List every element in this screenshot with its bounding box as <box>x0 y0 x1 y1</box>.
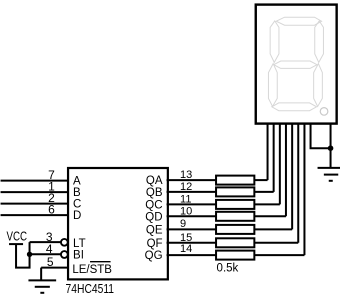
svg-text:QE: QE <box>146 225 163 237</box>
display pin d <box>285 123 287 216</box>
ground left <box>28 280 56 292</box>
segment g <box>274 61 317 68</box>
svg-text:QD: QD <box>145 212 162 224</box>
wire R2 to display pin b <box>254 191 273 193</box>
ground right <box>318 168 340 181</box>
overline STB <box>90 261 111 263</box>
display pin a <box>267 123 269 180</box>
svg-text:12: 12 <box>180 181 192 193</box>
svg-text:13: 13 <box>180 169 192 181</box>
junction dot BI <box>27 252 32 257</box>
display pin c <box>279 123 281 204</box>
display common pin right <box>330 123 332 167</box>
svg-text:QG: QG <box>145 250 163 262</box>
svg-text:4: 4 <box>46 242 53 256</box>
wire input D <box>1 214 68 216</box>
wire R6 to display pin f <box>254 242 298 244</box>
wire R3 to display pin c <box>254 203 279 205</box>
svg-text:LE/STB: LE/STB <box>72 264 112 276</box>
svg-text:0.5k: 0.5k <box>217 263 239 275</box>
7-segment display DIS1 body <box>256 5 337 124</box>
segment c <box>314 64 323 107</box>
display pin f <box>297 123 299 243</box>
wire LT <box>30 241 62 243</box>
IC U1 74HC4511 body <box>68 168 168 279</box>
resistor R7 <box>216 251 254 260</box>
display common pin jog <box>311 123 331 148</box>
display pin g <box>303 123 305 255</box>
wire to ground left <box>40 268 42 281</box>
wire R4 to display pin d <box>254 215 286 217</box>
display pin b <box>273 123 275 192</box>
svg-text:B: B <box>73 187 81 199</box>
resistor R1 <box>216 176 254 185</box>
inversion bubble BI <box>61 251 68 258</box>
wire QF <box>167 242 217 244</box>
resistor R3 <box>216 200 254 209</box>
segment e <box>268 64 277 107</box>
segment d <box>272 103 317 111</box>
wire R7 to display pin g <box>254 254 304 256</box>
svg-text:9: 9 <box>180 218 186 230</box>
wire R1 to display pin a <box>254 179 267 181</box>
wire R5 to display pin e <box>254 228 292 230</box>
wire input A <box>1 180 68 182</box>
wire QG <box>167 254 217 256</box>
junction dot common <box>328 145 334 151</box>
wire QA <box>167 179 217 181</box>
resistor R5 <box>216 225 254 234</box>
wire QC <box>167 203 217 205</box>
resistor R2 <box>216 187 254 196</box>
svg-text:C: C <box>73 199 81 211</box>
inversion bubble LT <box>61 239 68 246</box>
svg-text:QA: QA <box>146 175 163 187</box>
wire VCC down <box>16 242 30 268</box>
wire QE <box>167 228 217 230</box>
wire input B <box>1 191 68 193</box>
svg-text:QF: QF <box>147 238 163 250</box>
svg-text:D: D <box>73 210 81 222</box>
svg-text:A: A <box>73 176 81 188</box>
resistor R4 <box>216 212 254 221</box>
svg-text:14: 14 <box>180 243 192 255</box>
svg-text:LT: LT <box>73 238 86 250</box>
svg-text:QB: QB <box>146 187 163 199</box>
wire LE/STB <box>41 267 67 269</box>
display pin e <box>291 123 293 229</box>
wire input C <box>1 203 68 205</box>
resistor R6 <box>216 238 254 247</box>
svg-text:15: 15 <box>180 232 192 244</box>
svg-text:VCC: VCC <box>7 230 28 244</box>
wire BI <box>30 253 62 255</box>
7-segment digit <box>268 17 323 111</box>
svg-text:6: 6 <box>48 202 55 216</box>
wire QB <box>167 191 217 193</box>
segment a <box>276 17 321 25</box>
segment b <box>315 21 324 63</box>
wire QD <box>167 215 217 217</box>
svg-text:BI: BI <box>73 250 84 262</box>
svg-text:10: 10 <box>180 205 192 217</box>
output wires QA-QG <box>167 180 217 255</box>
svg-text:74HC4511: 74HC4511 <box>66 281 115 296</box>
svg-text:11: 11 <box>180 193 191 205</box>
svg-text:QC: QC <box>145 200 162 212</box>
decimal point <box>320 108 328 116</box>
segment f <box>270 21 279 63</box>
